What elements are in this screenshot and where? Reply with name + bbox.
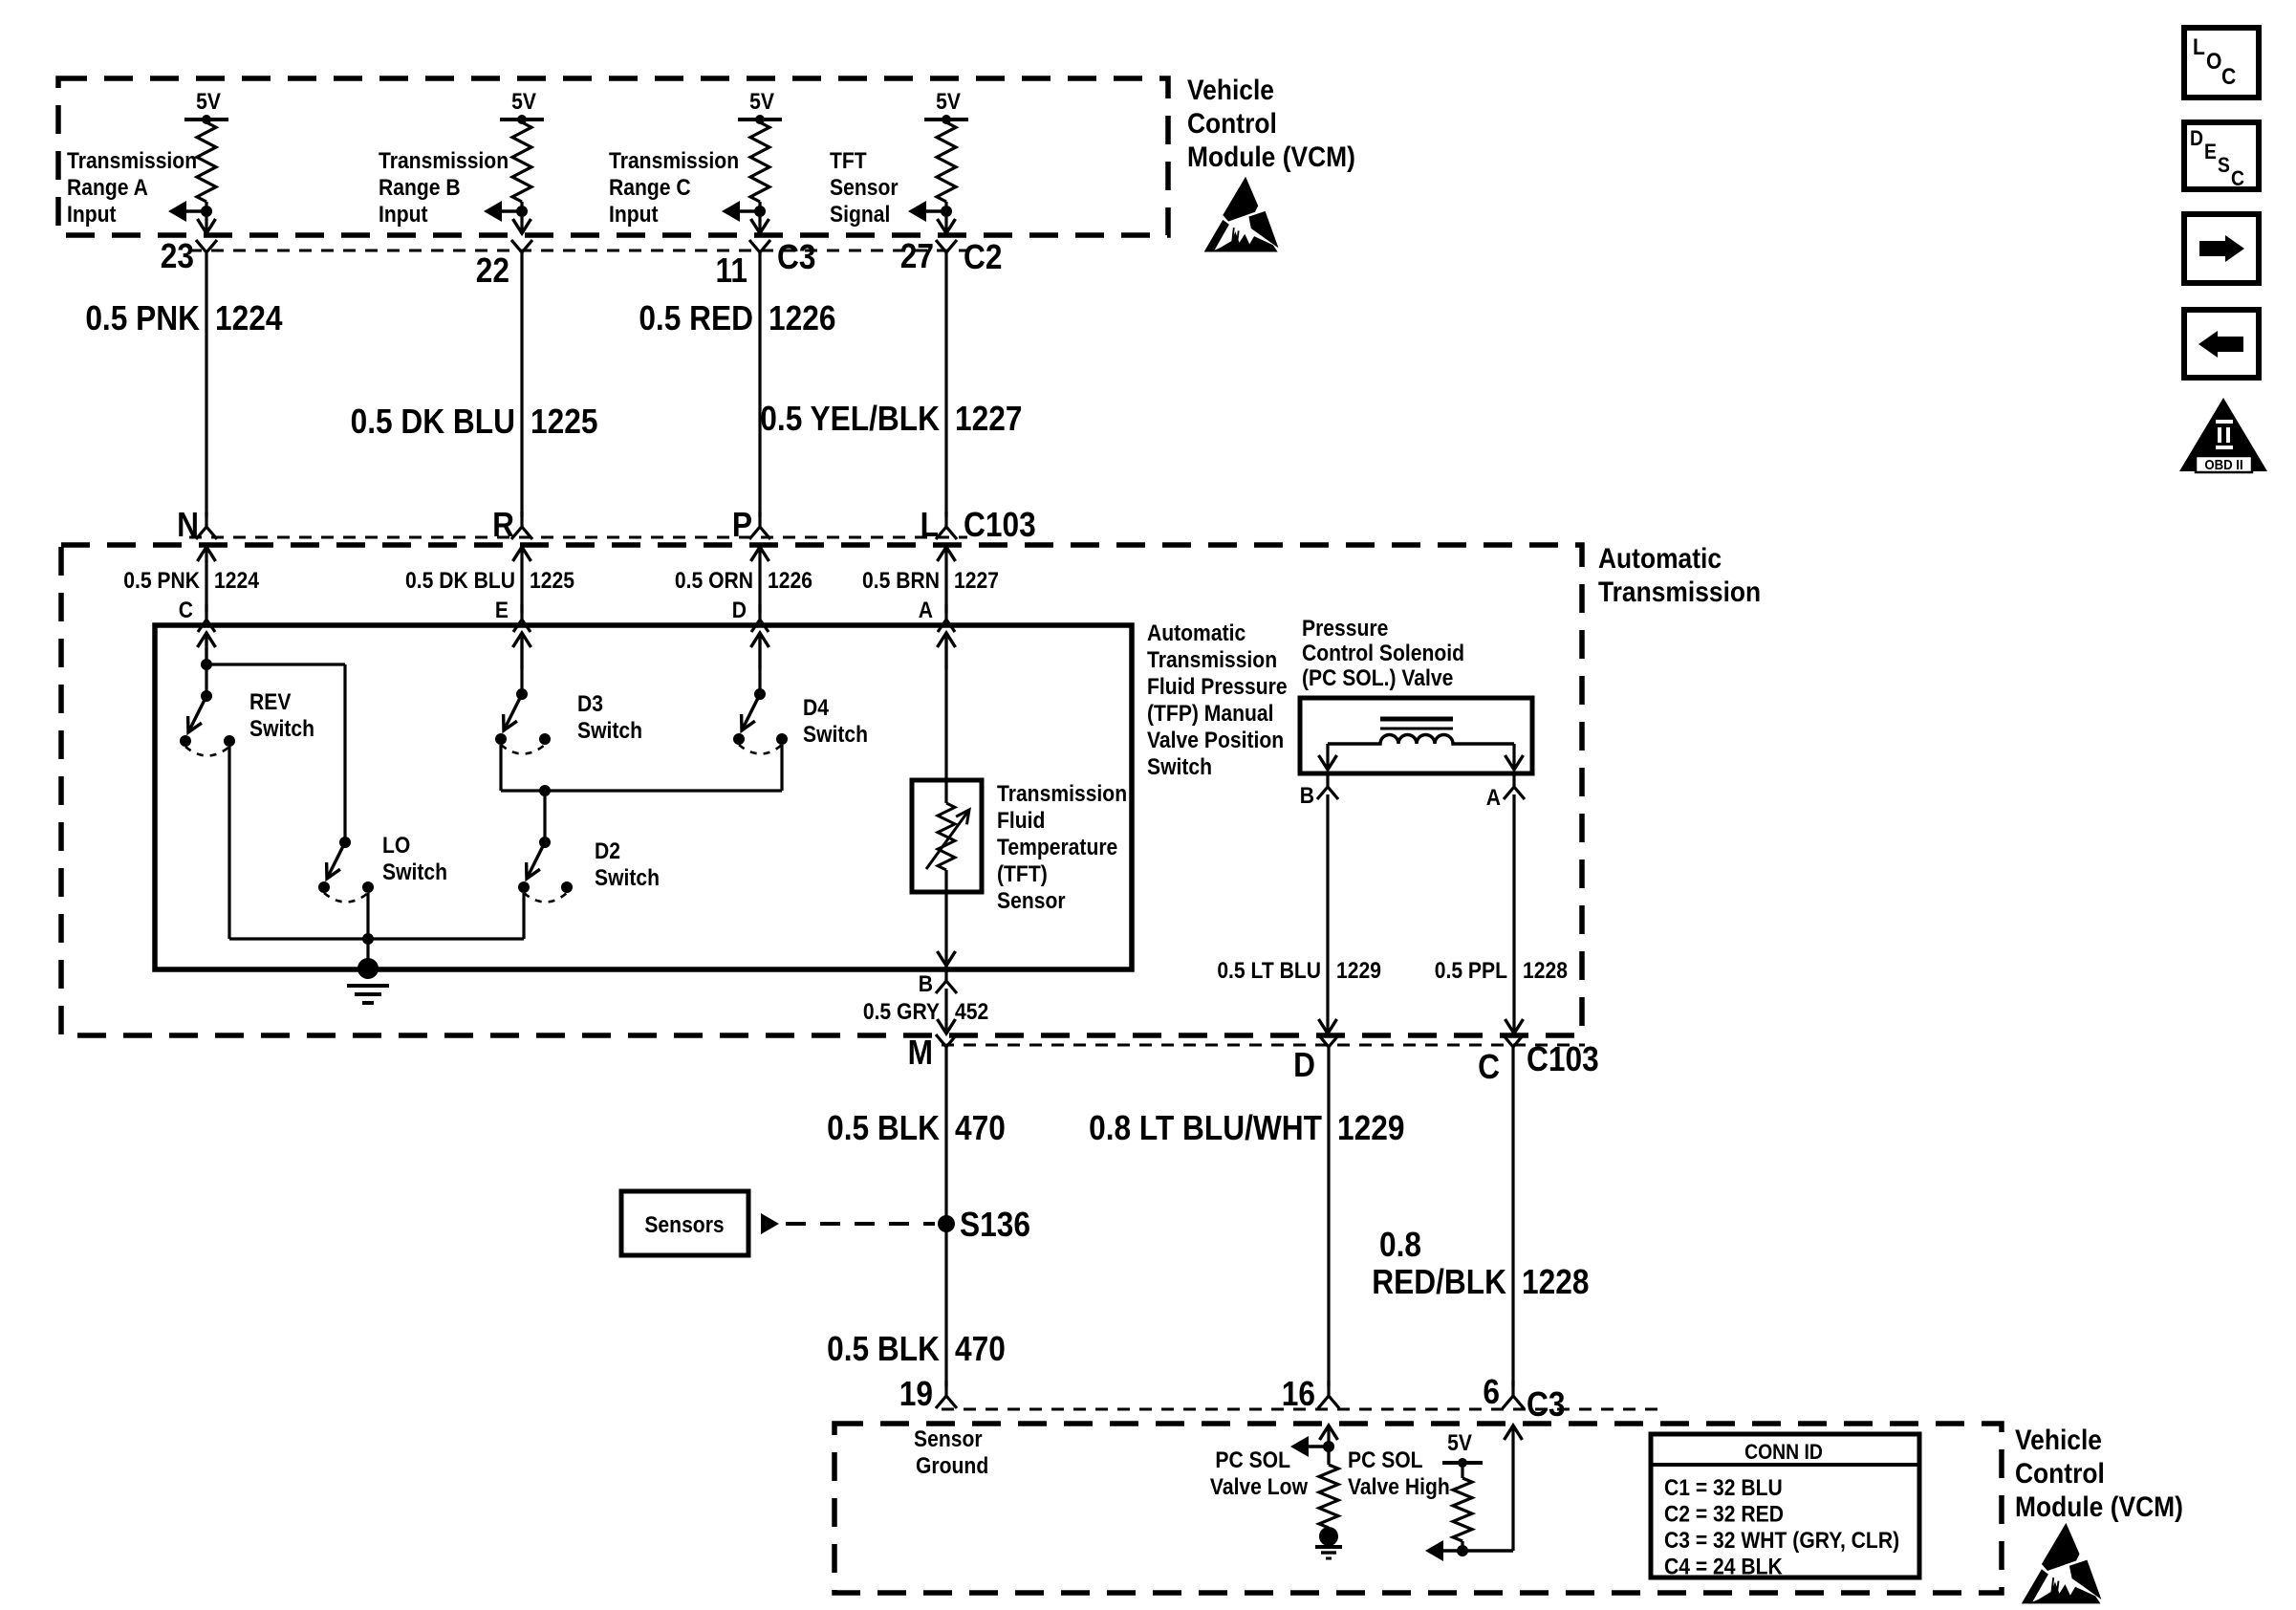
svg-text:Control Solenoid: Control Solenoid [1302,641,1464,666]
svg-text:0.5 PNK: 0.5 PNK [123,568,200,594]
D3 Switch [495,688,642,754]
svg-text:Switch: Switch [577,718,642,744]
svg-text:D4: D4 [803,695,829,721]
signal arrow to VCM internals (column 2) [484,201,522,222]
wire 6 into VCM [1511,1427,1514,1551]
connector pin 22 [476,240,532,290]
5V supply node (column 3) [738,89,782,124]
5V supply node (column 1) [184,89,228,124]
splice S136 [938,1206,1030,1244]
svg-text:PC SOL: PC SOL [1215,1447,1290,1473]
resistor PC SOL valve low (VCM internal) [1327,1447,1330,1465]
wire D3 left contact down [499,745,502,791]
label 0.5 LT BLU 1229 [1217,958,1381,984]
wire 1226 (0.5 RED) VCM to C103 [758,270,761,517]
ground symbol PC SOL valve low [1315,1527,1342,1558]
svg-text:19: 19 [899,1375,933,1413]
wire resistor to junction (column 4) [944,202,947,233]
svg-text:1227: 1227 [954,568,999,594]
wire 1226 into TFP switch, pin D [758,547,761,613]
svg-text:Switch: Switch [249,716,314,742]
5V supply PC SOL valve high [1442,1430,1483,1468]
svg-text:D: D [1293,1046,1315,1084]
connector pin 19 [899,1375,957,1413]
label 0.5 PPL 1228 [1435,958,1568,984]
svg-text:5V: 5V [749,89,774,115]
small label 0.5 PNK 1224 [123,568,259,594]
Vehicle Control Module (VCM) dashed box bottom [834,1424,2002,1593]
svg-text:0.5 YEL/BLK: 0.5 YEL/BLK [760,400,940,438]
Sensors box [621,1191,748,1255]
svg-text:Sensor: Sensor [830,175,899,201]
Vehicle Control Module (VCM) title bottom [2015,1423,2183,1522]
svg-text:0.5 BRN: 0.5 BRN [862,568,940,594]
svg-text:C2 = 32 RED: C2 = 32 RED [1664,1501,1784,1527]
D4 Switch [733,688,868,754]
svg-text:B: B [919,971,933,997]
svg-text:C3: C3 [777,238,815,276]
svg-text:Transmission: Transmission [997,781,1127,807]
dashed wire to splice S136 [786,1222,935,1226]
svg-text:C3: C3 [1527,1385,1565,1424]
solenoid lead B [1326,744,1329,768]
Vehicle Control Module (VCM) title top [1187,73,1355,172]
wire 1228 to VCM [1511,1064,1514,1386]
Vehicle Control Module (VCM) dashed box top [58,78,1168,235]
svg-text:C2: C2 [964,238,1002,276]
TFP input connector D [751,604,769,632]
svg-text:E: E [495,598,509,623]
connector pin 23 [161,237,217,275]
svg-text:Sensor: Sensor [914,1426,983,1452]
svg-text:0.5 PNK: 0.5 PNK [85,299,200,337]
svg-text:D: D [732,598,747,623]
svg-text:Switch: Switch [1147,754,1212,780]
junction PC SOL valve high [1457,1545,1468,1556]
svg-text:S136: S136 [960,1206,1030,1244]
label 0.8 LT BLU/WHT 1229 [1089,1109,1404,1147]
Automatic Transmission title [1598,541,1761,607]
svg-text:Vehicle: Vehicle [1187,73,1274,105]
wire C internal [205,633,207,696]
branch wire to LO switch [206,663,345,665]
solenoid connector B [1300,772,1338,808]
junction crossbar to D2 [539,785,551,796]
svg-text:Sensors: Sensors [644,1212,724,1238]
junction LO/ground [362,933,374,945]
wire 1224 (0.5 PNK) VCM to C103 [205,270,207,517]
connector line C103 bottom (thin dashed) [942,1044,1585,1047]
connector pin 16 [1282,1375,1339,1413]
solenoid lead A [1512,744,1515,768]
svg-text:6: 6 [1483,1373,1500,1411]
svg-text:C1 = 32 BLU: C1 = 32 BLU [1664,1475,1783,1501]
down arrow into connector (column 3) [751,219,769,233]
ground symbol TFP [347,958,389,1003]
internal wire arrow [205,633,207,669]
TFP output connector B [919,966,957,996]
Sensor Ground label [914,1426,988,1479]
svg-text:23: 23 [161,237,194,275]
svg-text:452: 452 [955,999,988,1025]
svg-text:1226: 1226 [768,568,812,594]
svg-text:0.5 DK BLU: 0.5 DK BLU [351,402,515,441]
signal arrow to VCM internals (column 4) [908,201,946,222]
down arrow wire A exits TFP box [938,951,956,966]
svg-text:1225: 1225 [530,568,574,594]
internal wire arrow [520,633,523,669]
TFP Manual Valve Position Switch box [155,625,1132,969]
junction node (column 1) [201,206,212,217]
svg-text:0.5 LT BLU: 0.5 LT BLU [1217,958,1321,984]
wire 1227 into TFP switch, pin A [944,547,947,613]
svg-text:0.5 RED: 0.5 RED [639,299,753,337]
svg-text:1228: 1228 [1523,958,1568,984]
resistor R1 5V pull-up [197,122,216,202]
svg-text:M: M [908,1033,933,1072]
TFP switch title [1147,620,1288,780]
svg-text:0.5 ORN: 0.5 ORN [675,568,753,594]
arrow to sensors wire [761,1213,779,1234]
svg-text:Valve Position: Valve Position [1147,728,1284,753]
svg-text:1224: 1224 [214,568,259,594]
wire D4 right contact down [780,745,783,791]
svg-text:Valve Low: Valve Low [1210,1474,1308,1500]
TFT sensor box [912,780,982,892]
svg-text:5V: 5V [511,89,536,115]
svg-text:Input: Input [67,202,117,228]
svg-text:C: C [2221,64,2236,90]
solenoid coil L1 [1328,735,1514,745]
svg-text:Vehicle: Vehicle [2015,1423,2102,1455]
label 0.5 PNK 1224 [85,299,282,337]
connector pin C [1478,1034,1524,1086]
svg-text:Transmission: Transmission [379,148,509,174]
label 0.5 BLK 470 lower [827,1330,1006,1368]
svg-text:1224: 1224 [215,299,283,337]
D2 Switch [518,837,660,903]
svg-text:TFT: TFT [830,148,867,174]
label column 4 [830,148,899,228]
svg-text:1228: 1228 [1522,1263,1589,1301]
svg-text:Transmission: Transmission [1147,647,1277,673]
svg-text:5V: 5V [196,89,221,115]
wire LO to ground bus [366,893,369,939]
svg-text:D3: D3 [577,691,603,717]
svg-text:5V: 5V [1447,1430,1472,1456]
svg-text:Transmission: Transmission [67,148,197,174]
svg-text:0.5 BLK: 0.5 BLK [827,1330,940,1368]
svg-text:Range A: Range A [67,175,148,201]
svg-text:Transmission: Transmission [609,148,739,174]
svg-text:0.8 LT BLU/WHT: 0.8 LT BLU/WHT [1089,1109,1322,1147]
junction PC SOL valve low [1323,1441,1334,1452]
label PC SOL Valve Low [1210,1447,1308,1500]
connector pin L of C103 [921,506,957,544]
svg-text:Transmission: Transmission [1598,575,1761,607]
wire 1229 to VCM [1327,1064,1330,1386]
connector line C3 (thin dashed) [942,1408,1663,1411]
svg-text:Range B: Range B [379,175,461,201]
CONN ID table [1651,1434,1919,1577]
svg-text:C: C [179,598,193,623]
label column 1 [67,148,197,228]
wire resistor to junction (column 1) [205,202,207,233]
small label 0.5 BRN 1227 [862,568,999,594]
wire REV to ground bus [227,747,230,939]
LOC icon [2184,28,2259,98]
svg-text:A: A [919,598,933,623]
svg-text:PC SOL: PC SOL [1348,1447,1423,1473]
small label 0.5 DK BLU 1225 [405,568,574,594]
svg-text:Control: Control [2015,1456,2105,1489]
TFP input connector C [198,604,215,632]
connector pin P of C103 [732,506,770,544]
svg-text:0.5 PPL: 0.5 PPL [1435,958,1507,984]
svg-text:C: C [1478,1048,1500,1086]
ESD warning symbol top [1204,177,1279,252]
svg-text:Range C: Range C [609,175,691,201]
svg-text:1229: 1229 [1337,1109,1404,1147]
svg-text:Module (VCM): Module (VCM) [2015,1490,2183,1522]
svg-text:L: L [2193,34,2205,60]
OBD II icon [2179,398,2267,472]
svg-text:Sensor: Sensor [997,888,1066,914]
resistor R4 5V pull-up [937,122,956,202]
svg-text:(TFT): (TFT) [997,861,1048,887]
label 0.8 RED/BLK 1228 [1372,1226,1589,1301]
signal arrow to VCM internals (column 1) [168,201,206,222]
svg-text:22: 22 [476,251,509,290]
PC SOL valve high signal arrow [1440,1549,1513,1552]
svg-text:1227: 1227 [955,400,1022,438]
svg-text:11: 11 [716,251,747,290]
svg-text:C: C [2231,167,2244,190]
svg-text:Switch: Switch [803,722,868,748]
wire A internal to TFT sensor [944,633,947,803]
connector line C2/C3 row (thin dashed) [189,250,967,252]
svg-text:Valve High: Valve High [1348,1474,1450,1500]
wire 452 to C103 [944,989,947,1032]
crossbar D3-D4 [501,789,782,792]
svg-text:Fluid: Fluid [997,808,1045,834]
down arrow into connector (column 2) [513,219,531,233]
svg-text:Module (VCM): Module (VCM) [1187,140,1355,172]
svg-text:Input: Input [609,202,659,228]
svg-text:0.5 DK BLU: 0.5 DK BLU [405,568,515,594]
svg-text:1225: 1225 [531,402,597,441]
wire to D2 [543,791,546,842]
label PC SOL Valve High [1348,1447,1450,1500]
label 0.5 RED 1226 [639,299,835,337]
connector line C103 top (thin dashed) [189,536,967,539]
ESD warning symbol bottom [2022,1523,2102,1604]
wire D internal [758,633,761,694]
wire D2 to ground bus [522,893,525,939]
svg-text:1226: 1226 [769,299,835,337]
5V supply node (column 4) [924,89,968,124]
svg-text:C103: C103 [964,506,1036,544]
connector pin 27 [900,237,1003,276]
LO Switch [318,833,447,903]
prev-page arrow icon [2184,310,2259,378]
label column 3 [609,148,739,228]
wire resistor to junction (column 3) [758,202,761,233]
down arrow into connector (column 4) [938,219,956,233]
svg-text:CONN ID: CONN ID [1744,1441,1823,1464]
connector pin D [1293,1034,1339,1084]
Automatic Transmission dashed box [61,545,1582,1035]
svg-text:LO: LO [382,833,410,859]
svg-text:(PC SOL.) Valve: (PC SOL.) Valve [1302,665,1453,691]
svg-text:Automatic: Automatic [1598,541,1722,574]
junction node (column 4) [941,206,952,217]
svg-text:Signal: Signal [830,202,890,228]
label column 2 [379,148,509,228]
small label 0.5 ORN 1226 [675,568,812,594]
resistor R3 5V pull-up [750,122,769,202]
svg-text:B: B [1300,783,1314,809]
svg-text:Temperature: Temperature [997,835,1117,860]
signal arrow to VCM internals (column 3) [722,201,760,222]
connector pin R of C103 [492,506,532,544]
junction node (column 2) [516,206,528,217]
svg-text:Switch: Switch [595,865,660,891]
wire 1229 solenoid B to C103 [1326,794,1329,1032]
label 0.5 DK BLU 1225 [351,402,598,441]
svg-text:OBD II: OBD II [2204,456,2242,472]
ground stem [366,939,369,964]
svg-text:O: O [2206,49,2221,75]
svg-text:E: E [2204,141,2217,163]
connector pin 6 [1483,1373,1524,1411]
connector pin M [908,1033,957,1072]
DESC icon [2184,122,2259,190]
label 0.5 YEL/BLK 1227 [760,400,1022,438]
svg-text:27: 27 [900,237,934,275]
svg-text:16: 16 [1282,1375,1315,1413]
svg-text:D: D [2190,127,2203,150]
next-page arrow icon [2184,214,2259,283]
internal wire arrow [944,633,947,669]
solenoid connector A [1486,772,1525,810]
ground bus wire [229,937,524,940]
wire 1224 into TFP switch, pin C [205,547,207,613]
TFP input connector A [938,604,955,632]
svg-text:A: A [1486,785,1501,811]
label 0.5 GRY 452 [863,999,988,1025]
wire 1225 into TFP switch, pin E [520,547,523,613]
down arrow into connector (column 1) [198,219,216,233]
svg-text:0.5 GRY: 0.5 GRY [863,999,940,1025]
label 0.5 BLK 470 upper [827,1109,1006,1147]
svg-text:Pressure: Pressure [1302,616,1388,642]
internal wire arrow [758,633,761,669]
wire 16 into VCM [1327,1427,1330,1463]
svg-text:5V: 5V [936,89,961,115]
junction to LO branch [201,659,212,670]
svg-text:C4 = 24 BLK: C4 = 24 BLK [1664,1554,1783,1579]
solenoid core bars [1380,717,1453,722]
TFT thermistor element [938,803,955,870]
svg-text:S: S [2218,154,2230,177]
svg-text:(TFP) Manual: (TFP) Manual [1147,701,1274,727]
TFP input connector E [513,604,531,632]
svg-text:0.8: 0.8 [1379,1226,1421,1264]
5V supply node (column 2) [500,89,544,124]
REV Switch [180,689,314,756]
svg-text:Fluid Pressure: Fluid Pressure [1147,674,1288,700]
junction node (column 3) [754,206,766,217]
svg-text:470: 470 [955,1109,1006,1147]
wire resistor to junction (column 2) [520,202,523,233]
TFT sensor title [997,781,1127,914]
connector pin N of C103 [177,506,217,544]
PC SOL valve box [1300,698,1532,773]
svg-text:RED/BLK: RED/BLK [1372,1263,1506,1301]
wire 1227 (0.5 YEL/BLK) VCM to C103 [944,270,947,517]
svg-text:470: 470 [955,1330,1006,1368]
wire E internal [520,633,523,694]
svg-text:REV: REV [249,689,291,715]
Pressure Control Solenoid title [1302,616,1464,691]
PC SOL valve low signal arrow [1308,1445,1329,1447]
TFT arrow [926,810,969,869]
wire 1225 (0.5 DK BLU) VCM to C103 [520,270,523,517]
svg-text:Ground: Ground [916,1453,988,1479]
svg-text:0.5 BLK: 0.5 BLK [827,1109,940,1147]
svg-text:Switch: Switch [382,859,447,885]
svg-text:1229: 1229 [1336,958,1381,984]
resistor R2 5V pull-up [512,122,531,202]
svg-text:Input: Input [379,202,428,228]
svg-text:D2: D2 [595,838,620,864]
svg-text:Control: Control [1187,106,1277,139]
svg-text:Automatic: Automatic [1147,620,1245,646]
connector pin 11 [716,238,816,290]
svg-text:C3 = 32 WHT (GRY, CLR): C3 = 32 WHT (GRY, CLR) [1664,1528,1899,1554]
wire 1228 solenoid A to C103 [1512,794,1515,1032]
wire 470 sensor ground [944,1064,947,1386]
svg-text:C103: C103 [1527,1040,1599,1078]
resistor PC SOL valve high (VCM internal) [1461,1463,1463,1478]
